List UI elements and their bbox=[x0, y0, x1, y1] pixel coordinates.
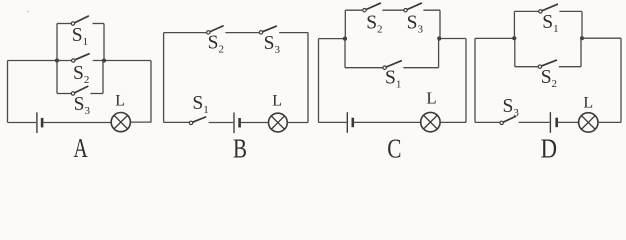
switch S1 (A) bbox=[71, 16, 88, 25]
switch S3 (B) bbox=[259, 26, 276, 34]
wire A top branch left vertical bbox=[56, 24, 58, 61]
battery (C) bbox=[347, 112, 353, 133]
wire A bottom middle bbox=[43, 122, 111, 124]
svg-text:L: L bbox=[115, 93, 125, 110]
svg-text:B: B bbox=[233, 133, 247, 161]
wire A lower branch right vertical bbox=[102, 61, 104, 94]
wire A lower branch left vertical bbox=[56, 61, 58, 94]
wire B top middle bbox=[225, 32, 259, 34]
wire D bottom right bbox=[598, 121, 621, 123]
wire D bottom middle2 bbox=[558, 121, 579, 123]
switch S3 (A) bbox=[71, 86, 87, 95]
wire B bottom middle2 bbox=[241, 122, 269, 124]
svg-text:D: D bbox=[541, 133, 557, 161]
wire D left edge bbox=[474, 38, 476, 122]
wire A lower branch right bbox=[90, 93, 103, 95]
wire C right edge bbox=[465, 39, 467, 123]
svg-text:L: L bbox=[426, 89, 436, 108]
svg-text:A: A bbox=[74, 133, 89, 161]
wire D top branch left vertical bbox=[513, 11, 515, 38]
wire A right edge bbox=[150, 61, 152, 123]
switch S1 (C) bbox=[383, 61, 401, 70]
wire D lower branch right bbox=[559, 66, 581, 68]
node C left junction bbox=[343, 37, 347, 41]
svg-text:L: L bbox=[272, 92, 282, 109]
wire A top branch left bbox=[57, 23, 71, 25]
wire C top branch right vertical bbox=[439, 10, 441, 38]
wire B bottom left bbox=[164, 121, 190, 123]
wire A top branch right vertical bbox=[103, 24, 105, 61]
wire C top branch left bbox=[345, 9, 362, 11]
switch S2 (C) bbox=[363, 3, 381, 12]
wire D top branch right vertical bbox=[581, 11, 583, 38]
wire B bottom middle1 bbox=[209, 122, 234, 124]
wire A bottom right bbox=[130, 121, 151, 123]
wire D bottom middle1 bbox=[519, 121, 550, 123]
wire A main line left bbox=[8, 60, 72, 62]
wire D top branch right bbox=[559, 10, 582, 12]
wire C lower branch right bbox=[403, 67, 438, 69]
wire A left edge bbox=[7, 61, 9, 123]
wire D bottom left bbox=[475, 121, 500, 123]
node D left junction bbox=[512, 36, 516, 40]
wire D main line right bbox=[582, 37, 621, 39]
battery (D) bbox=[550, 112, 556, 133]
wire C lower branch left bbox=[345, 67, 383, 69]
wire C bottom left bbox=[319, 121, 347, 123]
scan speck bbox=[27, 11, 29, 13]
switch S3 (D) bbox=[500, 116, 516, 124]
lamp L (D) bbox=[579, 113, 598, 132]
wire D lower branch left bbox=[515, 66, 538, 68]
wire B bottom right bbox=[287, 122, 308, 124]
wire C lower branch right vertical bbox=[438, 39, 440, 68]
wire C main line right bbox=[439, 38, 466, 40]
wire C main line left bbox=[319, 38, 346, 40]
wire D top branch left bbox=[514, 10, 538, 12]
lamp L (A) bbox=[111, 113, 130, 132]
wire C bottom middle bbox=[354, 121, 421, 123]
wire B left edge bbox=[163, 33, 165, 123]
svg-text:C: C bbox=[387, 133, 401, 161]
switch S1 (D) bbox=[539, 4, 558, 13]
switch S2 (B) bbox=[207, 26, 223, 34]
wire B top left bbox=[164, 32, 207, 34]
node A right junction bbox=[102, 58, 106, 62]
switch S2 (D) bbox=[538, 60, 556, 68]
switch S1 (B) bbox=[189, 117, 205, 125]
battery (B) bbox=[234, 113, 240, 134]
wire C top branch right bbox=[423, 9, 440, 11]
lamp L (C) bbox=[421, 112, 440, 131]
node C right junction bbox=[437, 36, 441, 40]
switch S3 (C) bbox=[404, 3, 422, 12]
wire A lower branch left bbox=[57, 93, 71, 95]
lamp L (B) bbox=[269, 113, 288, 132]
wire A top branch right bbox=[93, 23, 105, 25]
wire C lower branch left vertical bbox=[344, 39, 346, 68]
wire B right edge bbox=[307, 33, 309, 123]
svg-text:L: L bbox=[583, 95, 593, 112]
wire A bottom left bbox=[8, 122, 37, 124]
node A left junction bbox=[55, 58, 59, 62]
wire C left edge bbox=[318, 39, 320, 123]
wire C top branch left vertical bbox=[344, 10, 346, 38]
battery (A) bbox=[37, 112, 42, 133]
wire D right edge bbox=[620, 38, 622, 122]
wire A main line right bbox=[93, 60, 151, 62]
wire D lower branch right vertical bbox=[580, 38, 582, 66]
switch S2 (A) bbox=[72, 54, 89, 62]
wire D lower branch left vertical bbox=[514, 38, 516, 66]
node D right junction bbox=[580, 36, 584, 40]
wire C bottom right bbox=[440, 121, 466, 123]
wire B top right bbox=[279, 32, 308, 34]
wire D main line left bbox=[475, 37, 514, 39]
wire C top branch middle bbox=[382, 9, 403, 11]
